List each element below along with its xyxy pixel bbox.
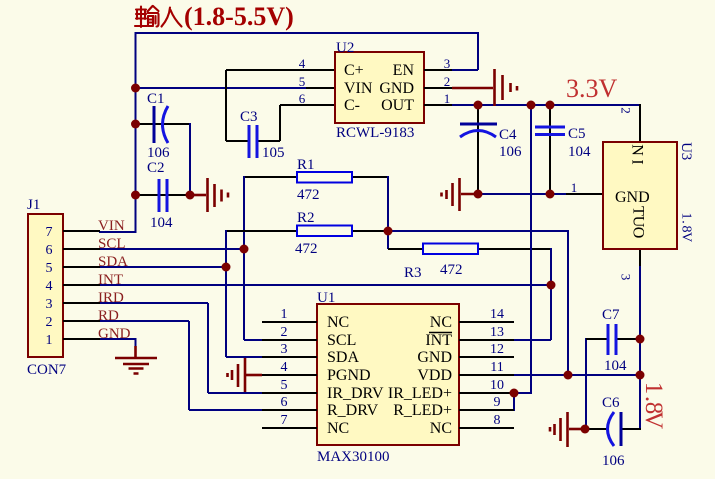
junction C1-C2 right [186,191,195,200]
ground below J1 [134,346,137,358]
svg-text:NC: NC [430,420,452,437]
wire C2 lead [135,194,190,196]
svg-text:3: 3 [678,153,694,161]
capacitor C1 plates [153,106,156,143]
svg-text:10: 10 [490,378,504,393]
svg-text:O: O [630,227,647,239]
wire SCL row [99,248,245,250]
svg-text:C2: C2 [147,160,165,176]
connector J1 pin numbers [46,225,53,348]
svg-text:IR_LED+: IR_LED+ [388,385,452,402]
wire R3 left lead [388,248,423,250]
svg-text:4: 4 [281,360,288,375]
svg-text:472: 472 [297,187,320,203]
svg-text:IRD: IRD [98,290,124,306]
svg-text:J1: J1 [27,197,40,213]
U2 pin names [344,62,414,114]
svg-text:104: 104 [150,215,173,231]
svg-text:R2: R2 [297,210,315,226]
wire INT row [99,284,552,286]
svg-text:U1: U1 [317,290,335,306]
svg-text:NC: NC [327,420,349,437]
svg-text:I: I [629,159,646,164]
resistor R3 body [423,244,478,255]
svg-text:C5: C5 [568,126,586,142]
junction rail/C2 [131,191,140,200]
regulator U2 body [335,52,424,123]
svg-text:VIN: VIN [98,218,125,234]
capacitor C3 plates [249,125,257,158]
svg-text:5: 5 [281,378,288,393]
regulator U3 body [603,142,677,249]
junction R1-R2 [384,227,393,236]
svg-text:1: 1 [281,307,288,322]
svg-text:T: T [630,206,647,216]
junction rail/C1 [131,120,140,129]
wire GND row to U3 pin1 [478,193,566,195]
wire R_LED+ link [513,393,515,411]
svg-text:3: 3 [46,297,53,312]
title 輸入(1.8-5.5V) [135,6,182,27]
svg-text:14: 14 [490,307,504,322]
junction INT row [547,281,556,290]
svg-text:U: U [678,142,694,153]
wire VIN top rail [136,32,479,34]
wire R1 right lead [352,176,388,178]
capacitor C4 plates [460,123,497,126]
connector J1 body [28,214,63,357]
svg-text:2: 2 [444,74,451,89]
svg-text:4: 4 [299,56,306,71]
junction C6 left [581,425,590,434]
wire C+ net U2 pin4 to C3 [226,70,335,141]
resistor R2 body [297,226,352,237]
svg-text:SDA: SDA [327,349,359,366]
svg-text:106: 106 [147,145,170,161]
junction GND row/C4 [474,190,483,199]
svg-text:MAX30100: MAX30100 [317,449,390,465]
U1 right pin stubs [459,322,514,428]
wire SDA row [99,266,227,268]
U1 right pin numbers [490,307,504,428]
ground at U2 pin2 [452,87,493,90]
wire VIN row to U2 pin5 [135,87,306,89]
svg-text:5: 5 [46,261,53,276]
junction SCL column [240,245,249,254]
capacitor C2 plates [159,179,167,212]
svg-text:SCL: SCL [327,332,356,349]
svg-text:VIN: VIN [344,80,373,97]
capacitor C5 plates [535,127,565,135]
wire U3 pin2 stub [639,104,641,142]
svg-text:9: 9 [494,395,501,410]
junction VDD row/1.8V column [564,371,573,380]
svg-text:GND: GND [615,189,650,206]
wire C- net C3 to U2 pin6 [258,105,335,141]
junction 1.8V row [636,371,645,380]
U1 left pin names [327,314,384,437]
svg-text:R1: R1 [297,157,315,173]
U1 left pin numbers [281,307,288,428]
svg-text:11: 11 [490,360,503,375]
junction 3.3V/C4 [474,101,483,110]
svg-text:GND: GND [417,349,452,366]
svg-text:GND: GND [98,326,131,342]
wire R3 right to INT column [478,248,551,250]
wire R junction column [387,176,389,249]
wire IRD row to U1 pin5 [99,303,263,393]
svg-text:104: 104 [604,358,627,374]
svg-text:106: 106 [602,453,625,469]
svg-text:12: 12 [490,342,504,357]
svg-text:V: V [679,232,694,242]
wire RD row to U1 pin6 [99,321,263,410]
IC U1 body [317,304,459,445]
wire C6 leads [584,428,641,430]
wire C1 right drop [189,123,191,195]
svg-text:CON7: CON7 [27,362,67,378]
svg-text:SDA: SDA [98,254,128,270]
svg-text:6: 6 [281,395,288,410]
wire 1.8V drop to VDD row [567,231,569,375]
wire R2 left to SDA column [226,230,297,232]
wire VDD row to 1.8V [514,374,641,376]
wire R1 left to SCL column [244,176,297,178]
svg-text:R_DRV: R_DRV [327,402,379,419]
svg-text:106: 106 [499,144,522,160]
U3 pin names IN GND OUT [629,144,646,164]
svg-text:7: 7 [281,413,288,428]
wire C1 lead [135,123,190,125]
U2 pin numbers [299,56,451,106]
wire 1.8V row 231 [388,230,569,232]
svg-text:U2: U2 [336,40,354,56]
svg-text:N: N [629,144,646,156]
U1 pin13 INT overline [429,332,452,334]
svg-text:1: 1 [571,180,578,195]
svg-text:IR_DRV: IR_DRV [327,385,384,402]
wire J1 pin7 to rail [99,231,137,233]
wire IR_LED+ to 3.3V column [514,104,531,394]
svg-text:C-: C- [344,97,360,114]
wire C4 stem [477,105,479,194]
ground left of C6 [569,428,584,431]
svg-text:6: 6 [46,243,53,258]
svg-text:INT: INT [425,332,452,349]
svg-text:6: 6 [299,91,306,106]
svg-text:5: 5 [299,74,306,89]
ground left of C4 GND row [461,193,478,196]
svg-text:EN: EN [393,62,415,79]
svg-text:SCL: SCL [98,236,126,252]
ground right of C2 [190,194,206,197]
svg-text:3: 3 [619,274,634,281]
power label 1.8V (rotated red) [640,382,667,429]
junction rail/VIN row [131,84,140,93]
svg-text:7: 7 [46,225,53,240]
svg-text:4: 4 [46,279,53,294]
svg-text:R_LED+: R_LED+ [393,402,452,419]
resistor R1 body [297,172,352,183]
wire C7 left column to C6 [585,338,587,429]
svg-text:VDD: VDD [417,367,452,384]
svg-text:2: 2 [281,325,288,340]
svg-text:PGND: PGND [327,367,371,384]
wire VIN left rail [135,32,137,232]
svg-text:C3: C3 [240,109,258,125]
svg-text:NC: NC [327,314,349,331]
svg-text:C+: C+ [344,62,364,79]
svg-text:3: 3 [281,342,288,357]
junction 3.3V/C5 [546,101,555,110]
connector J1 pin stubs [63,231,100,339]
svg-text:472: 472 [440,262,463,278]
junction C7 right [636,335,645,344]
svg-text:C4: C4 [499,127,517,143]
svg-text:1: 1 [679,213,694,220]
svg-text:1: 1 [640,382,667,395]
wire C7 leads [586,338,641,340]
svg-text:472: 472 [295,241,318,257]
svg-text:8: 8 [494,413,501,428]
svg-text:1: 1 [46,333,53,348]
capacitor C7 plates [608,324,616,355]
svg-text:V: V [640,411,667,429]
U2 pin stubs [424,70,452,105]
svg-text:2: 2 [46,315,53,330]
svg-text:INT: INT [98,272,123,288]
wire C5 stem [549,105,551,194]
svg-text:.: . [679,220,694,224]
svg-text:GND: GND [379,80,414,97]
U1 right pin names [388,314,452,437]
svg-text:2: 2 [619,107,634,114]
svg-text:RD: RD [98,308,119,324]
svg-text:OUT: OUT [381,97,414,114]
junction GND row/C5 [546,190,555,199]
wire EN drop from rail [452,32,478,70]
svg-text:13: 13 [490,325,504,340]
capacitor C6 plates [608,412,615,446]
svg-text:RCWL-9183: RCWL-9183 [336,125,414,141]
wire J1 GND row [99,339,137,347]
svg-text:1: 1 [444,91,451,106]
svg-text:R3: R3 [404,265,422,281]
svg-text:C1: C1 [147,91,165,107]
svg-text:3: 3 [444,56,451,71]
svg-text:104: 104 [568,144,591,160]
junction LED pins [510,389,519,398]
svg-text:3.3V: 3.3V [566,74,618,103]
svg-text:C6: C6 [602,395,620,411]
U1 left pin stubs [262,322,317,428]
ground at U1 pin4 PGND [246,374,262,377]
wire R2 right lead [352,230,388,232]
svg-text:C7: C7 [602,307,620,323]
wire 3.3V row (U2 OUT to U3 IN) [452,104,641,106]
svg-text:NC: NC [430,314,452,331]
svg-text:105: 105 [262,145,285,161]
svg-text:(1.8-5.5V): (1.8-5.5V) [184,2,294,31]
wire U3 pin3 1.8V drop [639,249,641,268]
junction SDA column [222,263,231,272]
junction 3.3V/LED column [527,101,536,110]
